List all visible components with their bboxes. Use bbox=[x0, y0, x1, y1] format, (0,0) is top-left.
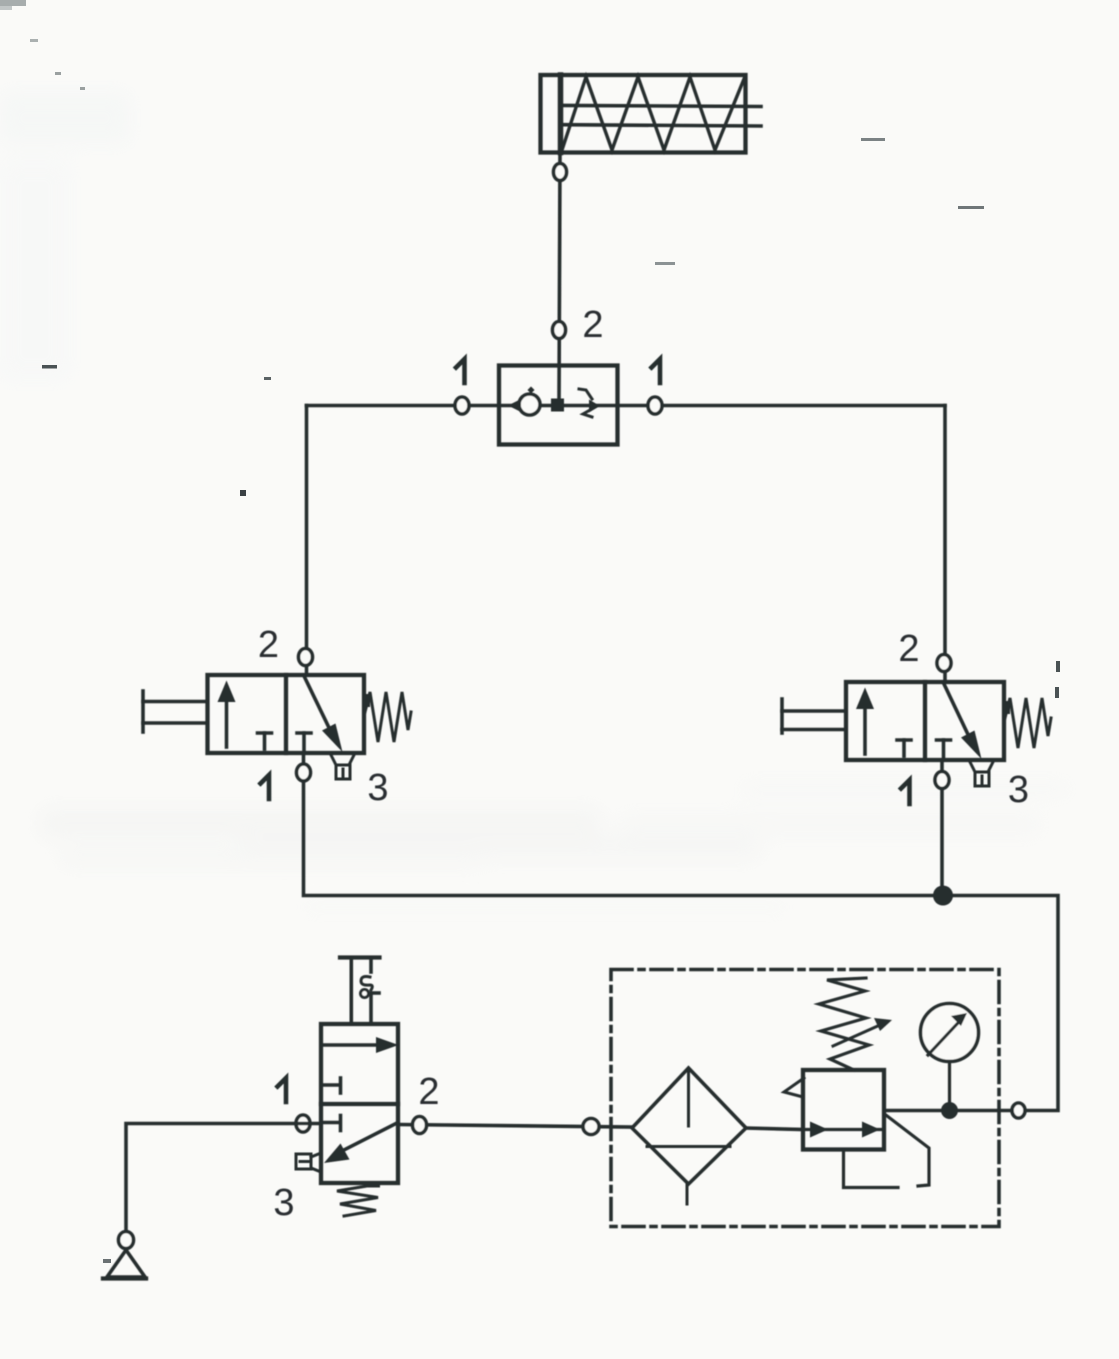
shuttle ball bbox=[519, 394, 540, 415]
regulator adjustment arrow bbox=[833, 1025, 880, 1046]
V3 actuator detent squiggle bbox=[361, 977, 372, 991]
valve V3 3/2 supply valve (bottom, vertical) bbox=[296, 958, 399, 1217]
V1 flow arrow up (actuated box) bbox=[225, 690, 229, 747]
service unit enclosure (dash-dot box) bbox=[611, 970, 999, 1227]
port circle V1 port 1 bbox=[297, 764, 311, 781]
V1 return spring bbox=[364, 694, 370, 707]
label 1 (V3) bbox=[278, 1078, 287, 1102]
svg-text:2: 2 bbox=[898, 628, 919, 670]
svg-text:3: 3 bbox=[367, 767, 388, 809]
port circle V3 port 2 bbox=[413, 1117, 427, 1134]
port circle V3 port 1 bbox=[296, 1115, 310, 1132]
wire shuttle horizontal line (port1 left to port1 right) bbox=[307, 404, 946, 408]
V3 exhaust fitting port 3 bbox=[311, 1153, 321, 1172]
V1 blocked port (right box) bbox=[297, 731, 311, 735]
gauge stem bbox=[948, 1062, 951, 1111]
compressed air source bbox=[103, 1250, 146, 1279]
svg-text:3: 3 bbox=[273, 1182, 294, 1224]
cylinder C1 (single-acting, spring return) bbox=[541, 75, 762, 153]
regulator adjustment spring bbox=[819, 978, 869, 1070]
V2 diagonal flow path 2 to 3 bbox=[944, 684, 973, 745]
V2 flow arrow up (actuated box) bbox=[863, 697, 867, 754]
pressure regulator R bbox=[784, 978, 929, 1188]
V2 return spring bbox=[1004, 701, 1010, 714]
shuttle valve U1 (OR function) bbox=[499, 366, 618, 445]
svg-text:2: 2 bbox=[258, 624, 279, 666]
piston rod bbox=[563, 105, 761, 106]
wire V2 port 1 down to junction bbox=[940, 760, 944, 896]
wire V1 port 1 down to bottom rail and right rail bbox=[304, 753, 1059, 1111]
filter F (with water separator) bbox=[632, 1068, 746, 1204]
svg-text:3: 3 bbox=[1008, 769, 1029, 811]
V1 diagonal flow path 2 to 3 bbox=[305, 677, 335, 738]
V3 return spring (bottom) bbox=[366, 1183, 380, 1188]
piston bbox=[558, 75, 564, 153]
valve V1 3/2 push-button, spring return (left) bbox=[143, 675, 411, 779]
V1 blocked port (left box) bbox=[258, 731, 272, 735]
valve V2 3/2 push-button, spring return (right) bbox=[782, 682, 1051, 786]
label 1 (V2) bbox=[901, 780, 910, 804]
port circle on regulator output line bbox=[1012, 1103, 1025, 1118]
V3 actuator plunger bbox=[340, 955, 380, 959]
svg-text:2: 2 bbox=[582, 304, 603, 346]
V3 blocked port (top box) bbox=[321, 1083, 340, 1087]
junction node gauge stem / output line bbox=[941, 1102, 958, 1119]
junction node on bottom rail bbox=[933, 886, 953, 906]
port circle V2 port 1 bbox=[935, 772, 949, 789]
regulator flow line with arrows bbox=[803, 1128, 884, 1131]
V2 push button actuator bbox=[782, 709, 846, 713]
V3 diagonal flow path 2 to 3 bbox=[340, 1123, 398, 1153]
V3 blocked port 1 (bottom box) bbox=[321, 1121, 340, 1125]
wire filter to regulator bbox=[746, 1128, 803, 1130]
V1 exhaust fitting port 3 bbox=[331, 755, 354, 765]
V2 blocked port (left box) bbox=[897, 738, 911, 742]
port circle at air supply bbox=[119, 1232, 134, 1249]
V3 flow arrow (top box) bbox=[321, 1043, 378, 1047]
cylinder return spring bbox=[562, 77, 744, 150]
wire shuttle to right valve port 2 bbox=[943, 406, 947, 683]
V1 push button actuator bbox=[143, 700, 208, 704]
label 1 (shuttle left) bbox=[456, 359, 465, 383]
port circle below cylinder bbox=[554, 164, 567, 181]
label 1 (V1) bbox=[261, 775, 270, 799]
center node bbox=[551, 399, 564, 412]
port circle shuttle right port 1 bbox=[648, 397, 662, 414]
regulator pilot feedback lines bbox=[844, 1150, 899, 1188]
left seat arrow bbox=[508, 399, 521, 412]
wire cylinder to shuttle valve port 2 bbox=[559, 153, 560, 406]
pressure gauge G bbox=[921, 1004, 979, 1111]
label 1 (shuttle right) bbox=[652, 359, 661, 383]
port circle left valve port 2 bbox=[299, 649, 313, 666]
V2 exhaust fitting port 3 bbox=[970, 762, 993, 772]
port circle shuttle left port 1 bbox=[455, 397, 469, 414]
port circle before filter bbox=[583, 1119, 599, 1135]
wire bottom valve port 2 to filter bbox=[398, 1125, 632, 1128]
svg-text:2: 2 bbox=[418, 1071, 439, 1113]
right squiggle arrow bbox=[579, 389, 592, 399]
regulator relief vent arrow bbox=[784, 1078, 804, 1097]
wire V3 port 1 to air supply bbox=[126, 1124, 321, 1233]
wire shuttle to left valve port 2 bbox=[305, 406, 309, 676]
port circle right valve port 2 bbox=[937, 655, 951, 672]
V2 blocked port (right box) bbox=[937, 738, 951, 742]
port circle shuttle port 2 bbox=[553, 322, 566, 339]
